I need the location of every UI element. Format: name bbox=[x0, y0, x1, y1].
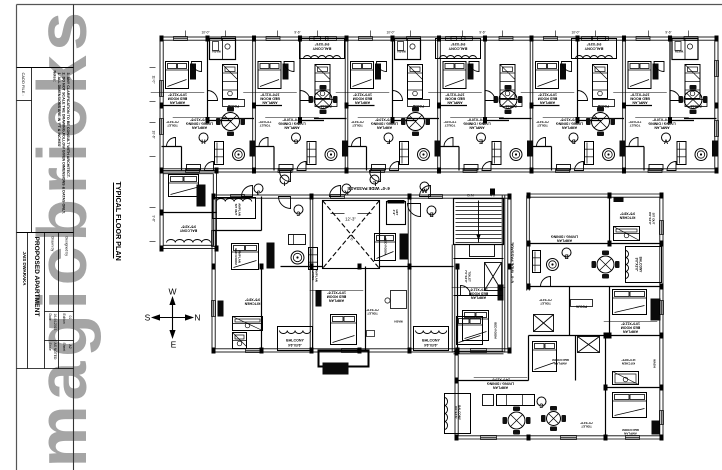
svg-text:9'6"X3'6": 9'6"X3'6" bbox=[454, 406, 458, 420]
rc balcony bbox=[626, 247, 662, 283]
tb row line 340 bbox=[45, 340, 74, 342]
svg-text:L: L bbox=[372, 179, 376, 185]
top band midwall 4 bbox=[577, 39, 579, 121]
mid-left unit wall x311 bbox=[309, 197, 311, 351]
columns mid-left bbox=[212, 194, 216, 200]
svg-text:7'0"X4'0": 7'0"X4'0" bbox=[443, 120, 457, 124]
passage entry 3 bbox=[330, 186, 341, 197]
svg-text:BALCONY: BALCONY bbox=[312, 47, 331, 51]
svg-text:M: M bbox=[422, 186, 427, 192]
top band midwall 0 bbox=[207, 39, 209, 121]
svg-text:7'0"X4'0": 7'0"X4'0" bbox=[365, 308, 379, 312]
svg-text:BED ROOM: BED ROOM bbox=[622, 428, 639, 432]
bb living sofa bbox=[483, 395, 535, 406]
svg-text:9'6"X3'6": 9'6"X3'6" bbox=[288, 344, 302, 348]
svg-text:7'0"X4'0": 7'0"X4'0" bbox=[350, 120, 364, 124]
rc kitchen bbox=[614, 227, 640, 241]
svg-text:BED ROOM: BED ROOM bbox=[494, 322, 498, 339]
ml kitchen room bbox=[218, 297, 263, 348]
svg-text:11'0"X8'0": 11'0"X8'0" bbox=[621, 358, 636, 362]
svg-text:BALCONY: BALCONY bbox=[286, 339, 304, 343]
tb col line 44 bbox=[44, 233, 46, 369]
top band unit 6 furniture bbox=[613, 39, 718, 171]
left wing outer bbox=[160, 171, 217, 249]
svg-text:9'6"X3'6": 9'6"X3'6" bbox=[586, 42, 601, 46]
svg-text:WASH: WASH bbox=[397, 50, 405, 54]
tb col line 58 bbox=[58, 233, 60, 369]
svg-text:LIVING: LIVING bbox=[311, 270, 315, 281]
passage entry 2 bbox=[280, 171, 291, 182]
ml bedroom1 bbox=[331, 315, 357, 345]
svg-text:11'-0": 11'-0" bbox=[152, 76, 156, 84]
svg-text:7'0"X4'0": 7'0"X4'0" bbox=[579, 421, 593, 425]
svg-text:WASH: WASH bbox=[675, 50, 683, 54]
svg-text:10'-6": 10'-6" bbox=[152, 131, 156, 139]
bb top walls bbox=[529, 335, 662, 337]
svg-text:9'6"X3'6": 9'6"X3'6" bbox=[181, 224, 197, 228]
ml toilet1 bbox=[365, 308, 379, 316]
svg-text:D: D bbox=[571, 137, 576, 143]
svg-text:Designed by: Designed by bbox=[65, 237, 69, 257]
svg-text:W: W bbox=[168, 287, 176, 297]
bb bed br bbox=[613, 393, 647, 418]
bb toilet bbox=[579, 421, 593, 429]
svg-text:10'0"X11'6": 10'0"X11'6" bbox=[168, 92, 187, 96]
arc right of lift bbox=[408, 204, 421, 217]
svg-text:16-04-2013: 16-04-2013 bbox=[53, 314, 57, 331]
bb living bbox=[508, 412, 525, 429]
left wing partition bbox=[162, 212, 217, 214]
svg-text:9'6"X8'0": 9'6"X8'0" bbox=[620, 211, 636, 215]
svg-text:2. DO NOT SCALE THE DRAWING,FO: 2. DO NOT SCALE THE DRAWING,FOLLOW GIVEN… bbox=[62, 73, 66, 215]
svg-text:C: C bbox=[296, 209, 301, 215]
top band unit wall x438.5 bbox=[437, 39, 439, 171]
title block right edge bbox=[73, 5, 75, 470]
svg-text:6'-0" WIDE PASSAGE: 6'-0" WIDE PASSAGE bbox=[510, 242, 515, 283]
compass bbox=[153, 298, 193, 338]
top band unit wall x623.5 bbox=[622, 39, 624, 171]
ml sitout bbox=[213, 198, 256, 219]
mid-left partition x261 bbox=[261, 267, 263, 351]
typical floor plan title bbox=[114, 182, 124, 261]
cadd cell vline bbox=[31, 68, 33, 233]
bb duct bbox=[578, 337, 600, 353]
proj cell vline bbox=[27, 233, 29, 369]
svg-text:WASH: WASH bbox=[394, 320, 402, 324]
svg-text:1. ALL DIMENSIONS ARE IN 'FT &: 1. ALL DIMENSIONS ARE IN 'FT & INCHES' bbox=[57, 73, 61, 148]
svg-text:J: J bbox=[257, 188, 260, 194]
svg-text:Date: Date bbox=[48, 314, 52, 321]
svg-text:14'0"X10'6": 14'0"X10'6" bbox=[491, 377, 511, 381]
svg-text:H: H bbox=[201, 137, 205, 143]
svg-text:SIT OUT: SIT OUT bbox=[234, 204, 238, 216]
svg-text:Scale: Scale bbox=[48, 343, 52, 351]
mid-left partition x457 bbox=[457, 267, 459, 351]
bb balcony bbox=[445, 394, 471, 434]
svg-text:9'6"X3'6": 9'6"X3'6" bbox=[450, 42, 465, 46]
svg-text:9'6"X3'6": 9'6"X3'6" bbox=[635, 258, 639, 272]
svg-text:7'0"X4'0": 7'0"X4'0" bbox=[538, 298, 552, 302]
top band unit 1 furniture bbox=[151, 39, 256, 171]
page border left bbox=[16, 5, 18, 470]
top balcony 3 bbox=[572, 37, 617, 59]
stairs column walls bbox=[451, 245, 453, 353]
svg-text:14'0"X10'6": 14'0"X10'6" bbox=[652, 117, 672, 121]
bottom balcony 2 bbox=[414, 327, 449, 351]
title block top line bbox=[17, 67, 74, 69]
edition text bbox=[62, 314, 72, 324]
stairs bedroom bbox=[457, 317, 483, 345]
svg-text:3. ANY CLARIFICATION TO BE CON: 3. ANY CLARIFICATION TO BE CONSULT WITH … bbox=[66, 73, 70, 178]
passage entry 5 bbox=[420, 186, 431, 197]
svg-text:9'6"X4'0": 9'6"X4'0" bbox=[648, 212, 652, 226]
svg-text:14'0"X10'6": 14'0"X10'6" bbox=[282, 117, 302, 121]
svg-text:Notes:: Notes: bbox=[53, 71, 57, 82]
passage entry 4 bbox=[370, 171, 381, 182]
svg-text:WASH: WASH bbox=[212, 50, 220, 54]
svg-text:C: C bbox=[539, 401, 544, 407]
svg-text:CADD FILE :: CADD FILE : bbox=[21, 73, 26, 96]
svg-text:10'0"X11'6": 10'0"X11'6" bbox=[538, 92, 557, 96]
svg-text:TYPICAL FLOOR PLAN: TYPICAL FLOOR PLAN bbox=[114, 182, 123, 261]
svg-text:10'-0": 10'-0" bbox=[571, 31, 579, 35]
left wing label bbox=[179, 224, 197, 232]
left wing cols bbox=[160, 168, 164, 174]
svg-text:9'-6": 9'-6" bbox=[294, 31, 300, 35]
svg-text:9'-6": 9'-6" bbox=[665, 31, 671, 35]
rc toilet lbl bbox=[538, 298, 552, 306]
mid-left h-partition bbox=[281, 266, 323, 268]
svg-text:14'0"X10'6": 14'0"X10'6" bbox=[467, 117, 487, 121]
svg-text:01: 01 bbox=[68, 316, 72, 320]
mid-left unit wall x409 bbox=[407, 197, 409, 351]
bb windows bbox=[481, 436, 497, 440]
svg-text:A2: A2 bbox=[68, 345, 72, 349]
bb cols bbox=[455, 435, 459, 441]
svg-text:6'-0" WIDE PASSAGE: 6'-0" WIDE PASSAGE bbox=[347, 186, 390, 191]
top band unit wall x531 bbox=[529, 39, 531, 171]
svg-text:BED ROOM: BED ROOM bbox=[552, 358, 569, 362]
rc walls2 bbox=[529, 286, 662, 288]
page border top bbox=[17, 4, 722, 6]
svg-text:7'0"X4'0": 7'0"X4'0" bbox=[628, 120, 642, 124]
top band unit 2 furniture bbox=[243, 62, 348, 171]
svg-text:F: F bbox=[386, 137, 390, 143]
bb walls bbox=[528, 336, 530, 381]
svg-text:B: B bbox=[564, 252, 569, 258]
left wing bed bbox=[169, 175, 199, 197]
bottom bump tank bbox=[323, 363, 349, 375]
top balcony 1 bbox=[300, 37, 345, 59]
svg-text:B: B bbox=[429, 210, 434, 216]
svg-text:7'0"X4'0": 7'0"X4'0" bbox=[165, 120, 179, 124]
svg-text:7'0"X4'0": 7'0"X4'0" bbox=[258, 120, 272, 124]
top band unit wall x253.5 bbox=[252, 39, 254, 171]
svg-text:7'0"X4'0": 7'0"X4'0" bbox=[464, 270, 468, 284]
svg-text:10'0"X11'6": 10'0"X11'6" bbox=[621, 321, 640, 325]
columns top band bbox=[160, 36, 164, 42]
bb kitchen bbox=[613, 372, 639, 385]
top band windows bbox=[174, 37, 188, 41]
svg-text:E: E bbox=[479, 137, 483, 143]
mid-left windows bbox=[246, 349, 262, 353]
lift bbox=[387, 200, 406, 225]
svg-text:9'6"X3'6": 9'6"X3'6" bbox=[424, 344, 438, 348]
svg-text:BED ROOM: BED ROOM bbox=[234, 248, 238, 265]
svg-text:12'-3": 12'-3" bbox=[345, 217, 356, 222]
svg-text:BALCONY: BALCONY bbox=[584, 47, 603, 51]
svg-text:D.N: D.N bbox=[467, 194, 474, 198]
svg-text:BALCONY: BALCONY bbox=[422, 339, 440, 343]
bottom bump room bbox=[319, 351, 369, 367]
top band unit 5 furniture bbox=[521, 62, 626, 171]
passage entry 1 bbox=[242, 186, 253, 197]
rc bedroom1 bbox=[613, 290, 647, 315]
left wing ward bbox=[197, 185, 206, 207]
rc living bbox=[597, 256, 614, 273]
svg-text:Drawn by: Drawn by bbox=[51, 237, 55, 252]
scale text bbox=[48, 343, 57, 360]
svg-text:4'-9": 4'-9" bbox=[392, 210, 396, 217]
top band unit wall x346 bbox=[344, 39, 346, 171]
ml store bbox=[391, 291, 407, 309]
staircase bbox=[454, 189, 504, 257]
svg-text:Sheet: Sheet bbox=[62, 343, 66, 352]
svg-text:BALCONY: BALCONY bbox=[448, 47, 467, 51]
mid-left unit C furniture bbox=[232, 197, 319, 282]
notes text bbox=[53, 71, 71, 215]
svg-text:10'-0": 10'-0" bbox=[201, 31, 209, 35]
svg-text:4'-0: 4'-0 bbox=[350, 235, 354, 241]
top band unit 3 furniture bbox=[336, 39, 441, 171]
svg-text:10'0"X11'6": 10'0"X11'6" bbox=[630, 92, 649, 96]
date text bbox=[48, 314, 57, 331]
svg-text:10'0"X11'6": 10'0"X11'6" bbox=[353, 92, 372, 96]
svg-text:AS NOTED: AS NOTED bbox=[53, 343, 57, 360]
cadd cell hline bbox=[17, 100, 32, 102]
top band unit 4 furniture bbox=[428, 62, 533, 171]
v-passage right wall bbox=[526, 196, 528, 291]
top balcony 2 bbox=[436, 37, 481, 59]
svg-text:LIVING / DINING: LIVING / DINING bbox=[551, 234, 578, 238]
bb bed mid bbox=[533, 342, 557, 372]
svg-text:S: S bbox=[145, 313, 151, 323]
bed under lift bbox=[375, 234, 396, 261]
rc duct bbox=[534, 315, 554, 332]
svg-text:Edition: Edition bbox=[62, 314, 66, 324]
stairs toilet bbox=[464, 270, 472, 284]
mid-left outer wall bbox=[212, 195, 511, 352]
courtyard open-to-sky bbox=[323, 201, 380, 269]
left wing scallop bbox=[167, 240, 211, 243]
svg-text:10'-0": 10'-0" bbox=[386, 31, 394, 35]
svg-text:WASH: WASH bbox=[653, 359, 657, 367]
top band midwall 2 bbox=[392, 39, 394, 121]
top band midwall 1 bbox=[299, 39, 301, 121]
svg-text:9'6"X3'6": 9'6"X3'6" bbox=[314, 42, 329, 46]
rc cols bbox=[527, 193, 531, 199]
mid-left partition x365 bbox=[365, 267, 367, 351]
tb row line 368 bbox=[17, 368, 74, 370]
svg-text:E: E bbox=[171, 340, 177, 350]
title block divider bbox=[17, 232, 74, 234]
tb row line 311 bbox=[45, 311, 74, 313]
top band midwall 5 bbox=[669, 39, 671, 121]
sheet text bbox=[62, 343, 72, 352]
svg-text:14'0"X10'6": 14'0"X10'6" bbox=[560, 117, 580, 121]
svg-text:9'-6": 9'-6" bbox=[152, 216, 156, 222]
svg-text:9'6"X8'0": 9'6"X8'0" bbox=[245, 297, 261, 301]
svg-text:BED ROOM: BED ROOM bbox=[384, 238, 388, 255]
svg-text:PROPOSED APARTMENT: PROPOSED APARTMENT bbox=[33, 237, 40, 317]
svg-text:JAIS DWARAKA: JAIS DWARAKA bbox=[22, 252, 27, 287]
svg-text:7'0"X4'0": 7'0"X4'0" bbox=[535, 120, 549, 124]
svg-text:10'0"X11'6": 10'0"X11'6" bbox=[327, 290, 346, 294]
top band midwall 3 bbox=[484, 39, 486, 121]
svg-text:10'0"X11'6": 10'0"X11'6" bbox=[260, 92, 279, 96]
bottom balcony 1 bbox=[278, 327, 313, 351]
svg-text:G: G bbox=[293, 137, 298, 143]
svg-text:N: N bbox=[194, 313, 200, 323]
svg-text:V: V bbox=[664, 137, 668, 143]
right block outline bbox=[455, 194, 663, 439]
svg-text:10'0"X11'6": 10'0"X11'6" bbox=[445, 92, 464, 96]
svg-text:K: K bbox=[344, 188, 349, 194]
svg-text:14'0"X10'6": 14'0"X10'6" bbox=[375, 117, 395, 121]
svg-text:14'0"X10'6": 14'0"X10'6" bbox=[190, 117, 210, 121]
top band outer wall bbox=[160, 37, 718, 172]
rc kitchen walls bbox=[529, 243, 662, 245]
ml bedroom2 bbox=[463, 311, 489, 341]
mid-left partition top 261 bbox=[261, 197, 263, 231]
svg-text:9'-6": 9'-6" bbox=[479, 31, 485, 35]
